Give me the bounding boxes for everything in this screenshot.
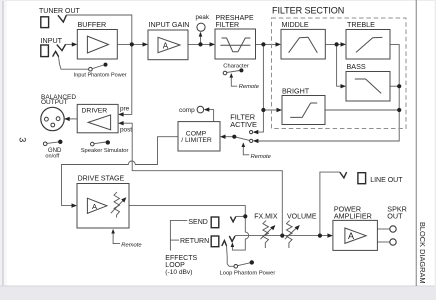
svg-text:INPUT: INPUT: [41, 36, 63, 45]
svg-text:comp: comp: [179, 107, 195, 114]
svg-text:A: A: [348, 231, 354, 241]
svg-text:FILTER SECTION: FILTER SECTION: [272, 5, 344, 15]
svg-text:BLOCK DIAGRAM: BLOCK DIAGRAM: [418, 222, 427, 284]
svg-text:on/off: on/off: [45, 154, 59, 160]
svg-text:FILTER: FILTER: [216, 22, 240, 29]
svg-text:BUFFER: BUFFER: [78, 20, 107, 29]
svg-text:3: 3: [18, 137, 28, 142]
svg-text:OUTPUT: OUTPUT: [41, 99, 68, 106]
svg-text:TUNER OUT: TUNER OUT: [39, 8, 81, 15]
svg-text:TREBLE: TREBLE: [347, 20, 375, 29]
svg-text:DRIVER: DRIVER: [82, 107, 108, 114]
svg-text:RETURN: RETURN: [180, 238, 209, 245]
svg-text:AMPLIFIER: AMPLIFIER: [334, 211, 372, 220]
svg-text:(-10 dBv): (-10 dBv): [165, 269, 192, 276]
svg-text:BASS: BASS: [347, 62, 366, 71]
svg-text:peak: peak: [196, 14, 210, 21]
svg-text:SEND: SEND: [188, 219, 207, 226]
svg-text:EFFECTS: EFFECTS: [165, 255, 197, 262]
svg-text:BRIGHT: BRIGHT: [282, 87, 310, 96]
svg-text:Remote: Remote: [239, 84, 260, 90]
svg-text:VOLUME: VOLUME: [287, 213, 317, 220]
svg-text:Remote: Remote: [251, 154, 272, 160]
svg-text:post: post: [120, 127, 132, 134]
svg-text:A: A: [163, 41, 169, 50]
svg-text:Input Phantom Power: Input Phantom Power: [74, 73, 127, 79]
svg-text:MIDDLE: MIDDLE: [282, 20, 309, 29]
svg-text:Loop Phantom Power: Loop Phantom Power: [220, 270, 276, 276]
svg-text:Remote: Remote: [121, 243, 142, 249]
svg-text:A: A: [92, 202, 97, 211]
svg-text:/ LIMITER: / LIMITER: [181, 137, 212, 144]
svg-text:OUT: OUT: [387, 211, 403, 220]
svg-text:Speaker Simulator: Speaker Simulator: [81, 148, 129, 154]
svg-text:ACTIVE: ACTIVE: [230, 120, 257, 129]
svg-text:Character: Character: [223, 63, 249, 69]
svg-text:LOOP: LOOP: [165, 262, 185, 269]
svg-text:FX.MIX: FX.MIX: [254, 213, 278, 220]
svg-text:pre: pre: [120, 106, 130, 113]
svg-text:LINE OUT: LINE OUT: [370, 177, 403, 184]
svg-text:INPUT GAIN: INPUT GAIN: [149, 20, 190, 29]
svg-text:DRIVE STAGE: DRIVE STAGE: [78, 176, 125, 183]
